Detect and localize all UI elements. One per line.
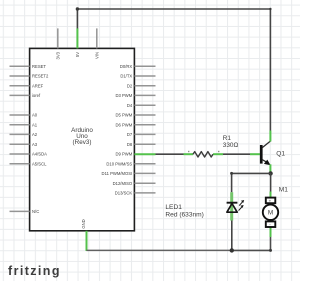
pin AREF [10,83,44,88]
pin D7 [127,132,156,137]
pin D9 PWM (connected, green) [115,152,155,157]
pin 3V3 (top) [56,28,61,59]
svg-text:M: M [268,210,273,217]
IC U1 Arduino Uno (Rev3) body [30,48,135,230]
label LED1 Red (633nm) [165,204,203,219]
pin D11 PWM/MOSI [102,171,156,176]
pin D3 PWM [115,93,155,98]
terminal tick R1 right lead [218,151,219,152]
pin VIN (top) [95,28,100,59]
svg-text:GND: GND [81,219,86,228]
junction LED cathode on ground rail [230,248,234,252]
terminal tick R1 left lead [188,151,189,152]
pin D0/RX [120,64,156,69]
svg-text:D13/SCK: D13/SCK [115,191,133,196]
svg-text:D12/MISO: D12/MISO [113,181,133,186]
svg-text:RESET2: RESET2 [32,74,49,79]
svg-text:D6 PWM: D6 PWM [115,122,132,127]
svg-text:D0/RX: D0/RX [120,64,133,69]
svg-text:D2: D2 [127,83,133,88]
svg-text:(Rev3): (Rev3) [73,139,92,146]
pin D1/TX [120,74,155,79]
bendpoint at LED branch corner [230,172,233,175]
svg-text:A0: A0 [32,113,38,118]
svg-text:D11 PWM/MOSI: D11 PWM/MOSI [102,171,133,176]
wire GND rail along bottom [87,249,232,251]
pin D6 PWM [115,122,155,127]
pin RESET2 [10,74,49,79]
pin N/C [10,209,40,214]
svg-text:A3: A3 [32,142,38,147]
pin A0 [10,113,38,118]
pin A2 [10,132,38,137]
svg-text:fritzing: fritzing [8,264,61,278]
motor M1 [263,192,278,238]
svg-text:D5 PWM: D5 PWM [115,113,132,118]
LED1 red (633nm) [227,192,245,220]
wire GND rail to motor [232,237,271,250]
svg-text:VIN: VIN [95,52,100,59]
junction at Q1 emitter / LED / motor node [268,171,272,175]
svg-text:N/C: N/C [32,209,39,214]
svg-text:ioref: ioref [32,93,41,98]
svg-text:D4: D4 [127,103,133,108]
pin GND (bottom, connected green) [81,219,87,251]
pin D8 [127,142,156,147]
wire emitter node to LED anode [232,173,271,192]
wire emitter node down to motor M1 [270,173,272,191]
transistor Q1 (NPN) [250,131,271,174]
wire 5V net: up from 5V pin then right along top to Q1 collector [77,9,270,131]
pin D12/MISO [113,181,156,186]
svg-text:A1: A1 [32,122,38,127]
pin D13/SCK [115,191,156,196]
svg-text:RESET: RESET [32,64,46,69]
svg-text:5V: 5V [75,52,80,57]
resistor R1 330 ohm [184,152,224,157]
pin A1 [10,122,38,127]
wire LED cathode down to ground rail [231,220,233,250]
svg-text:D7: D7 [127,132,133,137]
pin RESET [10,64,47,69]
svg-text:D3 PWM: D3 PWM [115,93,132,98]
svg-text:D1/TX: D1/TX [120,74,132,79]
value label R1 330ohm [223,135,239,149]
svg-text:LED1: LED1 [165,204,182,211]
svg-text:A4/SDA: A4/SDA [32,152,47,157]
svg-text:M1: M1 [279,186,288,193]
svg-text:Red (633nm): Red (633nm) [165,212,203,219]
wire R1 to Q1 base [223,153,250,155]
pin D2 [127,83,156,88]
svg-text:D8: D8 [127,142,133,147]
svg-text:D10 PWM/SS: D10 PWM/SS [106,161,132,166]
svg-text:+: + [269,198,272,203]
pin ioref [10,93,41,98]
pin A4/SDA [10,152,48,157]
svg-text:Q1: Q1 [276,151,285,158]
pin D10 PWM/SS [106,161,155,166]
wire D9 to R1 [156,153,184,155]
pin 5V (top, connected green) [75,28,80,57]
svg-text:A2: A2 [32,132,38,137]
svg-text:3V3: 3V3 [56,51,61,59]
pin D4 [127,103,156,108]
junction bendpoint at top-left corner of 5V wire [76,7,79,10]
svg-text:A5/SCL: A5/SCL [32,161,47,166]
bendpoint motor corner on ground rail [269,249,272,252]
svg-text:330Ω: 330Ω [223,142,239,149]
junction bendpoint at top-right corner [269,8,271,10]
svg-text:D9 PWM: D9 PWM [115,152,132,157]
pin A5/SCL [10,161,48,166]
pin A3 [10,142,38,147]
pin D5 PWM [115,113,155,118]
svg-text:AREF: AREF [32,83,44,88]
